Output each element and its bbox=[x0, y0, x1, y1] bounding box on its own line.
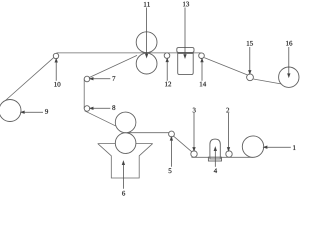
label line 10 bbox=[55, 61, 57, 81]
guide roller 12 bbox=[164, 53, 170, 59]
label 1 bbox=[293, 145, 295, 150]
label 7 bbox=[113, 76, 116, 81]
label 2 bbox=[226, 108, 229, 113]
label 3 bbox=[193, 108, 196, 113]
wire web 14 to 15 bbox=[204, 58, 247, 75]
roll 1 bbox=[242, 136, 263, 157]
label line 9 bbox=[23, 111, 43, 113]
label 4 bbox=[214, 168, 217, 173]
label 15 bbox=[247, 41, 249, 46]
wire web 7 to 11 nip bbox=[89, 55, 137, 77]
label 5 bbox=[169, 168, 172, 173]
hopper 6 body bbox=[98, 144, 153, 178]
guide roller 7 bbox=[84, 76, 90, 82]
laminating roller 11 bottom bbox=[136, 53, 157, 74]
label line 12 bbox=[166, 61, 168, 81]
coater roller 6a bbox=[115, 112, 136, 133]
label 9 bbox=[45, 109, 48, 114]
guide roller 5 bbox=[169, 131, 175, 137]
label line 5 bbox=[170, 139, 172, 167]
tank 4 body bbox=[210, 139, 220, 159]
label line 14 bbox=[201, 61, 203, 81]
guide roller 14 bbox=[199, 53, 205, 59]
guide roller 15 bbox=[247, 74, 254, 81]
label line 2 bbox=[228, 113, 230, 149]
guide roller 8 bbox=[84, 106, 90, 112]
label line 15 bbox=[249, 47, 251, 72]
tank 4 base bbox=[208, 157, 221, 161]
roll 9 bbox=[0, 100, 21, 122]
label 8 bbox=[112, 105, 115, 110]
label line 4 bbox=[214, 150, 216, 167]
guide roller 10 bbox=[53, 53, 58, 58]
roll 16 bbox=[279, 67, 299, 87]
wire web 5 to 3 bbox=[174, 136, 192, 152]
laminating roller 11 top bbox=[136, 32, 157, 53]
wire web 7 to 8 vertical bbox=[83, 79, 85, 109]
label line 16 bbox=[288, 47, 290, 75]
guide roller 2 bbox=[226, 151, 232, 157]
label line 8 bbox=[92, 107, 110, 109]
label 11 bbox=[144, 2, 146, 7]
label line 7 bbox=[92, 78, 110, 80]
wire web top horizontal 10-11-12-13-14 bbox=[57, 52, 202, 54]
wire web bottom 3-2-4-1 bbox=[192, 156, 254, 158]
label line 13 bbox=[184, 8, 186, 56]
label line 11 bbox=[146, 8, 148, 56]
coater roller 6b bbox=[115, 133, 136, 154]
label line 3 bbox=[193, 113, 195, 149]
label line 6 bbox=[122, 163, 124, 188]
label line 1 bbox=[266, 146, 291, 148]
guide roller 3 bbox=[191, 151, 197, 157]
wire web roller 6a to 5 bbox=[126, 132, 169, 134]
label 13 bbox=[183, 2, 185, 7]
wire web 15 to 16 bbox=[253, 79, 281, 84]
wire web 9 to 10 bbox=[5, 58, 53, 101]
tank 13 body bbox=[178, 53, 194, 74]
label 10 bbox=[54, 82, 56, 87]
label 16 bbox=[286, 41, 288, 46]
wire web 8 to roller 6a bbox=[85, 111, 117, 127]
label 6 bbox=[122, 191, 125, 196]
tank 13 lid bbox=[177, 48, 194, 53]
label 12 bbox=[165, 82, 167, 87]
label 14 bbox=[200, 82, 202, 87]
